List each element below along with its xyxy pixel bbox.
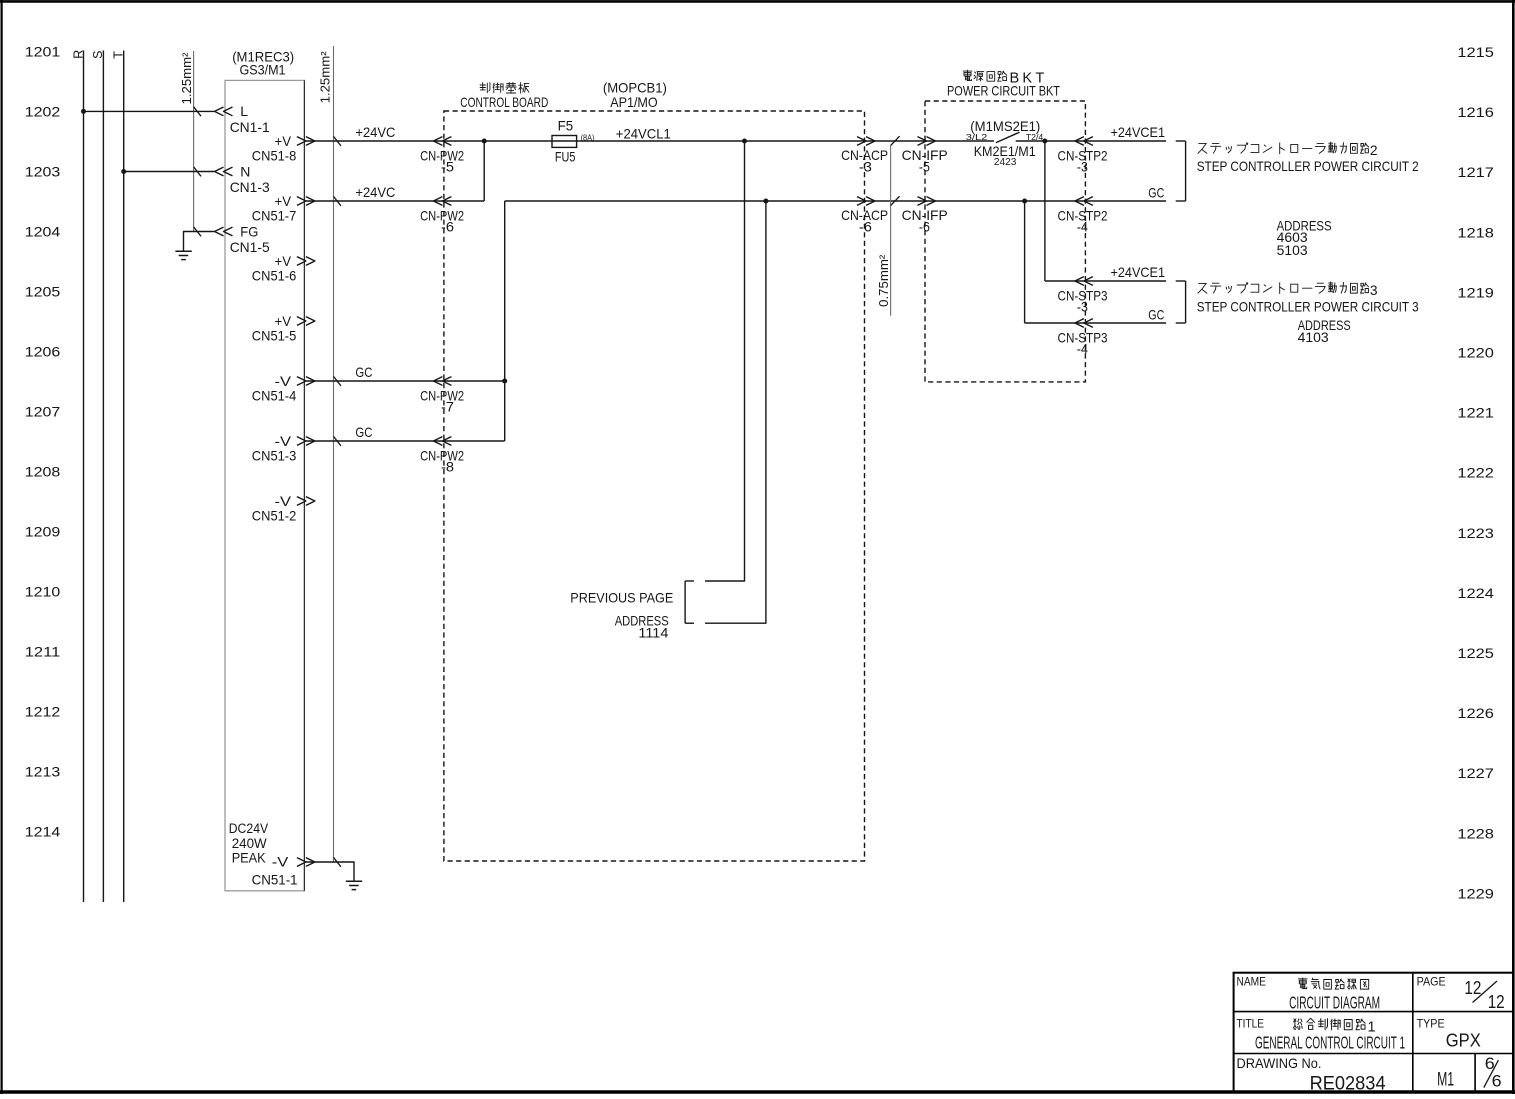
svg-text:CN51-4: CN51-4 <box>252 388 297 404</box>
svg-text:M1: M1 <box>1437 1069 1454 1091</box>
svg-text:1.25mm²: 1.25mm² <box>179 52 194 105</box>
connector CN-PW2-8 <box>433 437 442 446</box>
svg-text:+24VCE1: +24VCE1 <box>1111 125 1166 140</box>
svg-text:FU5: FU5 <box>555 150 576 165</box>
svg-text:1114: 1114 <box>638 626 668 641</box>
pin N CN1-3 <box>215 167 224 176</box>
label 電気回路線図 (kanji) <box>1298 978 1307 980</box>
bracket circuit 3 <box>1176 280 1186 282</box>
svg-text:TYPE: TYPE <box>1417 1016 1445 1030</box>
junction (branch to previous page) <box>742 139 747 144</box>
wire junction to CN-STP2-3 <box>1045 140 1086 142</box>
wire GC (CN-ACP-6 run to CN-STP2-4) <box>505 200 1086 202</box>
connector CN-STP3-3 <box>1075 277 1084 286</box>
wire GC stub (circuit 3) <box>1025 322 1167 324</box>
svg-text:1216: 1216 <box>1457 104 1494 120</box>
svg-text:FG: FG <box>240 223 258 239</box>
svg-text:1223: 1223 <box>1457 525 1494 541</box>
svg-text:-8: -8 <box>441 459 454 474</box>
svg-text:N: N <box>240 163 250 179</box>
svg-text:STEP CONTROLLER POWER CIRCUIT: STEP CONTROLLER POWER CIRCUIT 2 <box>1197 159 1419 174</box>
svg-text:1214: 1214 <box>25 824 61 840</box>
power bus line T <box>123 51 125 903</box>
svg-text:1215: 1215 <box>1457 44 1494 60</box>
svg-text:1207: 1207 <box>25 404 61 420</box>
connector CN-PW2-6 <box>433 197 442 206</box>
svg-text:1203: 1203 <box>25 164 61 180</box>
svg-text:-6: -6 <box>441 219 454 234</box>
wire gauge marker 0.75mm2 <box>890 145 892 315</box>
wire GC (CN51-4 to CN-PW2-7) <box>306 380 444 382</box>
svg-text:-7: -7 <box>441 399 454 414</box>
svg-text:-3: -3 <box>1077 159 1088 174</box>
svg-text:1226: 1226 <box>1457 705 1494 721</box>
wire FG pin to ground <box>184 232 215 252</box>
svg-text:1208: 1208 <box>25 464 61 480</box>
svg-text:TITLE: TITLE <box>1237 1016 1265 1030</box>
ground (-V output) <box>346 880 362 882</box>
svg-text:+V: +V <box>275 253 292 269</box>
svg-text:+24VCE1: +24VCE1 <box>1111 265 1166 280</box>
svg-text:CIRCUIT DIAGRAM: CIRCUIT DIAGRAM <box>1289 993 1380 1013</box>
wire CN-PW2-7 stub <box>444 380 505 382</box>
svg-text:-5: -5 <box>441 159 454 174</box>
wire -V CN51-1 to ground <box>306 862 354 881</box>
svg-text:DC24V: DC24V <box>229 821 269 836</box>
pin +V CN51-8 <box>297 137 306 146</box>
svg-text:-4: -4 <box>1077 341 1088 356</box>
svg-text:S: S <box>91 50 105 58</box>
svg-text:AP1/MO: AP1/MO <box>610 95 658 110</box>
wire CN-PW2-8 stub <box>444 440 505 442</box>
svg-text:+24VC: +24VC <box>355 185 395 200</box>
svg-text:RE02834: RE02834 <box>1310 1072 1386 1094</box>
svg-text:1220: 1220 <box>1457 345 1494 361</box>
connector CN-IFP-6 <box>918 197 927 206</box>
svg-text:1221: 1221 <box>1457 405 1494 421</box>
svg-text:CN1-3: CN1-3 <box>230 179 270 195</box>
svg-text:STEP CONTROLLER POWER CIRCUIT: STEP CONTROLLER POWER CIRCUIT 3 <box>1197 299 1419 314</box>
svg-text:1204: 1204 <box>25 224 61 240</box>
svg-text:CN51-8: CN51-8 <box>252 148 297 164</box>
wire to previous page (GC branch) <box>705 201 766 623</box>
svg-text:GENERAL CONTROL CIRCUIT 1: GENERAL CONTROL CIRCUIT 1 <box>1255 1033 1405 1053</box>
svg-text:CN51-7: CN51-7 <box>252 208 297 224</box>
connector CN-ACP-6 <box>857 197 866 206</box>
svg-text:1218: 1218 <box>1457 224 1494 240</box>
pin +V CN51-6 <box>297 257 306 266</box>
svg-text:1217: 1217 <box>1457 164 1494 180</box>
label 電源回路BKT (kanji) <box>963 70 972 72</box>
connector CN-STP2-3 <box>1075 137 1084 146</box>
svg-text:1224: 1224 <box>1457 585 1494 601</box>
wire +24VCE1 out (circuit 2) <box>1085 140 1166 142</box>
svg-text:1225: 1225 <box>1457 645 1494 661</box>
svg-text:1212: 1212 <box>25 704 61 720</box>
svg-text:1227: 1227 <box>1457 765 1494 781</box>
svg-text:0.75mm²: 0.75mm² <box>876 254 891 307</box>
wire GC junction <box>1022 199 1027 204</box>
svg-text:1.25mm²: 1.25mm² <box>318 51 333 104</box>
svg-text:1213: 1213 <box>25 764 61 780</box>
svg-text:DRAWING No.: DRAWING No. <box>1237 1055 1322 1071</box>
pin -V CN51-4 <box>297 377 306 386</box>
svg-text:1229: 1229 <box>1457 885 1494 901</box>
svg-text:-V: -V <box>275 433 292 449</box>
wire GC vertical to STP3 <box>1024 201 1026 323</box>
svg-text:(MOPCB1): (MOPCB1) <box>603 81 667 96</box>
label step controller power circuit 2 (Japanese) <box>1199 143 1207 145</box>
svg-text:+V: +V <box>275 193 292 209</box>
svg-text:F5: F5 <box>558 119 574 134</box>
connector CN-IFP-5 <box>918 137 927 146</box>
svg-text:CONTROL BOARD: CONTROL BOARD <box>460 95 548 110</box>
wire GC out (circuit 2) <box>1085 200 1166 202</box>
svg-text:PEAK: PEAK <box>232 850 266 865</box>
svg-text:-3: -3 <box>1077 299 1088 314</box>
svg-text:CN51-6: CN51-6 <box>252 268 297 284</box>
wire R to pin L (row 1202) <box>84 110 215 112</box>
wire gauge marker 1.25mm2 (left) <box>193 51 195 232</box>
svg-text:GC: GC <box>1148 307 1164 322</box>
svg-text:PAGE: PAGE <box>1417 974 1446 988</box>
svg-text:6: 6 <box>1492 1072 1502 1091</box>
wire T to pin N (row 1203) <box>124 171 214 173</box>
connector CN-PW2-5 <box>433 137 442 146</box>
power supply unit GS3/M1 (M1REC3) box <box>225 80 304 890</box>
wire +24VCE1 vertical to STP3 <box>1044 141 1046 281</box>
pin -V CN51-1 <box>297 858 306 867</box>
svg-text:12: 12 <box>1464 978 1481 998</box>
svg-text:POWER CIRCUIT BKT: POWER CIRCUIT BKT <box>947 84 1060 99</box>
svg-text:2: 2 <box>1370 143 1378 158</box>
svg-text:1205: 1205 <box>25 284 61 300</box>
pin FG CN1-5 <box>215 227 224 236</box>
pin -V CN51-2 <box>297 497 306 506</box>
svg-text:1210: 1210 <box>25 584 61 600</box>
svg-text:GPX: GPX <box>1446 1031 1481 1051</box>
svg-text:PREVIOUS PAGE: PREVIOUS PAGE <box>570 590 673 606</box>
svg-text:1211: 1211 <box>25 644 61 660</box>
connector CN-ACP-3 <box>857 137 866 146</box>
svg-text:3/L2: 3/L2 <box>966 132 988 142</box>
wire +24VCL1 (CN-PW2-5 through F5 to CN-ACP-3) <box>444 140 994 142</box>
svg-text:(8A): (8A) <box>581 133 595 142</box>
pin L CN1-1 <box>215 107 224 116</box>
svg-text:5103: 5103 <box>1277 243 1308 258</box>
svg-text:T: T <box>112 51 126 59</box>
title block <box>1234 973 1514 1092</box>
label 制御基板 (kanji) <box>480 84 485 86</box>
svg-text:240W: 240W <box>232 836 267 851</box>
svg-text:-3: -3 <box>859 159 872 174</box>
wire +24VCE1 stub (circuit 3) <box>1045 280 1166 282</box>
svg-text:1201: 1201 <box>25 44 61 60</box>
svg-text:L: L <box>240 103 248 119</box>
control board (MOPCB1) dashed box <box>444 111 865 861</box>
svg-text:R: R <box>71 50 85 59</box>
label step controller power circuit 3 (Japanese) <box>1199 282 1207 284</box>
wire to previous page (+24VCL1 branch) <box>705 141 745 581</box>
svg-text:1222: 1222 <box>1457 465 1494 481</box>
svg-text:CN1-5: CN1-5 <box>230 239 270 255</box>
previous page bracket <box>685 580 694 582</box>
bracket circuit 2 <box>1176 140 1186 142</box>
svg-text:-V: -V <box>272 854 289 870</box>
svg-text:-5: -5 <box>919 159 930 174</box>
svg-text:1219: 1219 <box>1457 284 1494 300</box>
svg-text:2423: 2423 <box>994 157 1017 168</box>
junction on T line <box>121 169 126 174</box>
svg-text:GS3/M1: GS3/M1 <box>240 62 286 78</box>
junction on R line <box>81 109 86 114</box>
svg-text:GC: GC <box>1148 185 1164 200</box>
wire +24VC (CN51-7 to CN-PW2-6) <box>306 200 444 202</box>
junction (GC branch to previous page) <box>763 199 768 204</box>
svg-text:+24VC: +24VC <box>355 125 395 140</box>
label 総合制御回路1 (kanji) <box>1294 1019 1296 1022</box>
wire +24VC (CN51-8 to CN-PW2-5) <box>306 140 444 142</box>
svg-text:-V: -V <box>275 493 292 509</box>
ground (FG) <box>175 250 191 252</box>
svg-text:4103: 4103 <box>1298 330 1329 345</box>
wire CN-PW2-6 stub <box>444 200 484 202</box>
wire branch down to CN-PW2-6 <box>483 141 485 201</box>
svg-text:-6: -6 <box>859 219 872 234</box>
power circuit BKT dashed box <box>925 101 1085 382</box>
svg-text:GC: GC <box>355 425 372 440</box>
pin +V CN51-7 <box>297 197 306 206</box>
connector CN-STP3-4 <box>1075 319 1084 328</box>
svg-text:CN51-2: CN51-2 <box>252 508 297 524</box>
svg-text:+24VCL1: +24VCL1 <box>616 126 671 141</box>
svg-text:CN1-1: CN1-1 <box>230 119 270 135</box>
wire GC vertical (to CN-PW2-7/8) <box>504 201 506 441</box>
fuse F5 (FU5, 8A) <box>552 136 577 148</box>
wire GC (CN51-3 to CN-PW2-8) <box>306 440 444 442</box>
svg-text:CN51-3: CN51-3 <box>252 448 297 464</box>
connector CN-PW2-7 <box>433 377 442 386</box>
connector CN-STP2-4 <box>1075 197 1084 206</box>
pin -V CN51-3 <box>297 437 306 446</box>
svg-text:CN51-5: CN51-5 <box>252 328 297 344</box>
svg-text:-4: -4 <box>1077 219 1088 234</box>
junction at CN-PW2-7 <box>502 379 507 384</box>
svg-text:1228: 1228 <box>1457 825 1494 841</box>
power bus line R <box>83 51 85 903</box>
svg-text:1209: 1209 <box>25 524 61 540</box>
wire gauge marker 1.25mm2 (right of GS3) <box>333 46 335 862</box>
svg-text:NAME: NAME <box>1237 974 1267 988</box>
svg-text:GC: GC <box>355 365 372 380</box>
junction +24VCE1 branch <box>1042 139 1047 144</box>
svg-text:12: 12 <box>1488 992 1505 1012</box>
svg-text:3: 3 <box>1370 283 1378 298</box>
svg-text:-6: -6 <box>919 219 930 234</box>
svg-text:1202: 1202 <box>25 104 61 120</box>
svg-text:+V: +V <box>275 313 292 329</box>
svg-text:+V: +V <box>275 133 292 149</box>
border frame <box>0 0 1515 3</box>
svg-text:-V: -V <box>275 373 292 389</box>
power bus line S <box>102 51 104 903</box>
junction (branch to CN-PW2-6) <box>482 139 487 144</box>
pin +V CN51-5 <box>297 317 306 326</box>
svg-text:CN51-1: CN51-1 <box>252 871 298 887</box>
svg-text:1206: 1206 <box>25 344 61 360</box>
